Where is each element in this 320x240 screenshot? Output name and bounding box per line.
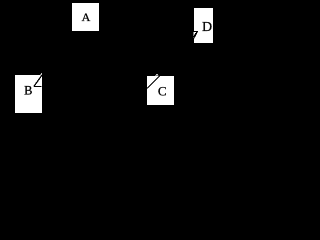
node B [14,74,43,114]
wire D to C [147,42,193,88]
svg-text:A: A [82,10,91,24]
wire C to D [174,31,198,74]
arrowhead at B (edge A to B) [34,32,73,87]
svg-text:C: C [158,83,167,98]
node C [146,75,175,106]
node A [71,2,100,32]
border frame [1,1,215,136]
wire A to C [98,32,147,76]
wire A to B [34,32,73,87]
arrowhead at C (edge D to C) [147,42,193,88]
svg-text:D: D [202,20,212,35]
svg-text:B: B [24,84,32,98]
arrowhead at D (edge C to D) [174,31,198,74]
node D [193,7,214,44]
